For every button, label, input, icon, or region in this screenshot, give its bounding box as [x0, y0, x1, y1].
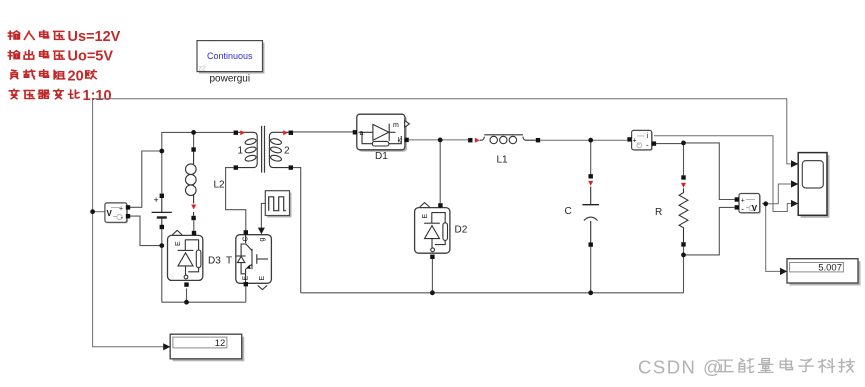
current measurement Im	[632, 130, 653, 151]
wire: D3 anode to rail	[186, 288, 188, 302]
inductor L1	[480, 135, 536, 144]
svg-text:powergui: powergui	[210, 74, 251, 85]
annotation: red Chinese note line 4 (变压器变比1:10)	[9, 88, 111, 104]
port D3 bottom	[184, 282, 188, 286]
svg-text:E: E	[422, 214, 429, 219]
voltage measurement Vm1 (input voltage)	[105, 203, 128, 224]
svg-text:R: R	[655, 207, 662, 218]
wire: secondary bottom rail	[301, 292, 684, 294]
powergui block	[197, 41, 265, 85]
port L2 top	[191, 147, 195, 151]
display block (5.007)	[787, 259, 861, 286]
wire: transformer primary bottom to IGBT collector	[226, 168, 246, 231]
annotation: red Chinese note line 1 (输入电压Us=12V)	[8, 29, 120, 45]
node: battery minus junction	[159, 243, 164, 248]
port R bottom	[681, 242, 685, 246]
svg-text:2: 2	[284, 145, 290, 156]
svg-text:a: a	[360, 130, 364, 137]
svg-text:V: V	[752, 204, 758, 213]
svg-text:1: 1	[238, 145, 244, 156]
diode D2	[415, 203, 450, 254]
port D1 cathode	[404, 138, 408, 142]
svg-text:+: +	[119, 206, 123, 213]
node: battery plus junction	[159, 149, 164, 154]
red arrow: C current	[588, 181, 593, 186]
capacitor C	[582, 187, 599, 243]
wire: current measurement out to resistor node	[656, 143, 684, 145]
wire: resistor top stub	[683, 143, 685, 175]
svg-text:T: T	[226, 256, 232, 267]
IGBT T	[236, 235, 272, 290]
wire: L2 bottom to diode D3	[193, 220, 195, 231]
port C bottom	[589, 242, 593, 246]
svg-text:5.007: 5.007	[818, 263, 842, 274]
node: capacitor rail junction	[588, 290, 593, 295]
port transformer primary bottom	[234, 165, 238, 169]
svg-text:12: 12	[215, 338, 226, 349]
svg-text:C: C	[243, 236, 250, 241]
wire: L2 branch top stub	[193, 132, 195, 147]
svg-text:D3: D3	[208, 256, 221, 267]
watermark: CSDN @正能量电子科技	[638, 357, 854, 378]
svg-text:Uo=5V: Uo=5V	[68, 49, 114, 65]
wire: D1 cathode to L1	[409, 139, 468, 141]
resistor R	[679, 188, 688, 242]
wire: battery top stub	[161, 151, 163, 194]
node: D2 rail junction	[430, 290, 435, 295]
svg-text:+: +	[154, 195, 159, 205]
wire: battery bottom to ground rail	[161, 229, 163, 302]
voltage measurement Vm2 (output voltage)	[739, 194, 761, 214]
wire: D2 anode to rail	[431, 259, 433, 293]
svg-text:CSDN @: CSDN @	[638, 357, 723, 378]
wire: resistor bottom stub	[683, 246, 685, 292]
svg-text:D1: D1	[375, 151, 388, 162]
svg-text:g: g	[259, 238, 266, 242]
svg-text:D2: D2	[455, 225, 468, 236]
svg-text:E: E	[175, 241, 182, 246]
node: Vm1 output junction	[90, 209, 95, 214]
wire: pulse generator to IGBT gate	[261, 203, 265, 228]
pulse generator	[265, 191, 291, 218]
node: capacitor top junction	[588, 138, 593, 143]
port transformer primary top	[234, 131, 238, 135]
port Vm2 +	[735, 197, 739, 201]
wire: input voltage signal to scope (top rail)	[93, 99, 791, 164]
diode D3	[168, 230, 203, 280]
wire: battery positive riser to primary top rail	[162, 132, 234, 151]
annotation: red Chinese note line 2 (输出电压Uo=5V)	[8, 49, 113, 65]
port T collector	[244, 230, 248, 234]
svg-text:20: 20	[68, 68, 84, 84]
wire: resistor bottom node to Vm2 minus	[684, 207, 735, 255]
wire: resistor node to Vm2 plus	[684, 143, 735, 200]
arrow: display 12 input	[163, 343, 170, 350]
svg-text:1:10: 1:10	[83, 88, 112, 104]
svg-text:L2: L2	[214, 179, 226, 190]
wire: capacitor bottom to rail	[590, 247, 592, 293]
transformer core	[262, 126, 265, 173]
port Vm1 -	[126, 214, 130, 218]
wire: IGBT emitter to rail	[245, 286, 247, 302]
svg-text:Us=12V: Us=12V	[68, 29, 121, 45]
port transformer secondary bottom	[289, 165, 293, 169]
port transformer secondary top	[289, 131, 293, 135]
port D2 bottom	[430, 255, 434, 259]
svg-text:z2: z2	[199, 65, 207, 72]
svg-text:-: -	[741, 204, 744, 213]
node: L2 top junction	[191, 130, 196, 135]
port C top	[589, 174, 593, 178]
port D2 top	[438, 203, 442, 207]
wire: Vm2 output to scope input 2	[762, 184, 791, 204]
port T emitter	[244, 282, 248, 286]
wire: secondary top to D1 anode	[293, 131, 353, 133]
port battery bottom	[160, 225, 164, 229]
transformer secondary winding 2	[269, 132, 288, 167]
wire: Vm1 minus input	[129, 216, 162, 246]
wire: D2 cathode riser	[439, 140, 441, 203]
port Vm1 +	[126, 205, 130, 209]
arrow: scope input 1	[791, 160, 798, 167]
red arrow: L1 current	[475, 138, 480, 143]
red arrow: winding 1 polarity	[240, 130, 245, 135]
port L2 bottom	[191, 216, 195, 220]
svg-text:E: E	[259, 276, 266, 281]
wire: left vertical from Vm1 output down to display	[93, 99, 164, 347]
wire: secondary bottom riser	[293, 168, 301, 293]
arrow: scope input 2	[791, 180, 798, 187]
arrow: scope input 3	[791, 200, 798, 207]
svg-text:Continuous: Continuous	[207, 51, 253, 61]
port Im right	[652, 141, 656, 145]
annotation: red Chinese note line 3 (负载电阻20欧)	[11, 68, 97, 84]
svg-text:+: +	[633, 137, 637, 144]
svg-text:L1: L1	[497, 154, 509, 165]
svg-text:C: C	[565, 206, 572, 217]
svg-text:V: V	[107, 209, 113, 218]
svg-text:k: k	[398, 137, 402, 144]
red arrow: R current	[681, 183, 686, 188]
node: resistor top junction	[681, 141, 686, 146]
svg-text:E: E	[243, 276, 250, 281]
diode D1	[357, 114, 410, 152]
red arrow: winding 2 polarity	[283, 130, 288, 135]
wire: primary bottom rail	[162, 301, 246, 303]
wire: L1 to capacitor to current measurement	[540, 139, 627, 141]
port L1 right	[536, 138, 540, 142]
port Vm2 -	[735, 205, 739, 209]
wire: current signal to scope input 3	[654, 136, 791, 212]
port D1 anode	[353, 130, 357, 134]
wire: Vm2 output down to display	[766, 204, 780, 272]
port R top	[681, 175, 685, 179]
red arrow: L2 current	[191, 205, 196, 210]
display block (12)	[170, 334, 244, 361]
port L1 left	[468, 138, 472, 142]
wire: Vm1 plus input	[129, 151, 162, 207]
wire: Vm1 output stub	[93, 211, 105, 213]
transformer primary winding 1	[238, 132, 257, 167]
scope block	[798, 153, 829, 218]
svg-text:-: -	[121, 213, 124, 222]
arrow: gate signal arrowhead	[258, 228, 265, 235]
port Im left	[627, 137, 631, 141]
wire: capacitor top stub	[590, 140, 592, 174]
node: D3 rail junction	[184, 300, 189, 305]
port battery top	[160, 194, 164, 198]
port D3 top	[192, 231, 196, 235]
svg-text:m: m	[393, 122, 399, 129]
node: resistor bottom junction	[681, 253, 686, 258]
arrow: display 5.007 input	[780, 268, 787, 275]
node: D1-D2 junction	[438, 138, 443, 143]
DC voltage source (battery Us)	[152, 195, 172, 225]
node: Vm2 output junction	[763, 201, 768, 206]
svg-text:-: -	[646, 141, 649, 150]
inductor L2	[186, 152, 197, 216]
